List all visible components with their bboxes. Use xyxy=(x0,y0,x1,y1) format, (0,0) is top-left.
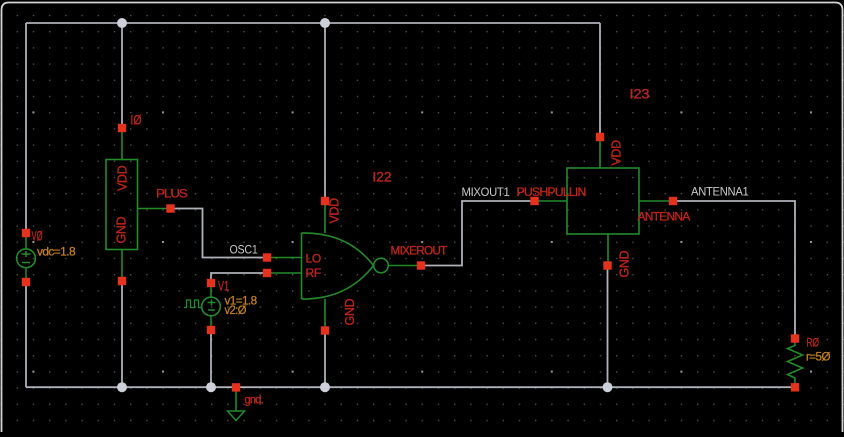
pin label GND of I23 xyxy=(618,251,632,278)
svg-text:PUSHPULLIN: PUSHPULLIN xyxy=(517,185,586,199)
net label PUSHPULLIN xyxy=(517,185,586,199)
wire net ANTENNA1 to R0 xyxy=(676,201,795,336)
pin I0 VDD xyxy=(118,124,126,132)
wire vdd rail down to I23 xyxy=(599,23,601,135)
svg-text:VØ: VØ xyxy=(32,229,43,244)
pin PUSHPULLIN xyxy=(530,197,538,205)
svg-text:VDD: VDD xyxy=(116,165,130,191)
voltage source V1 vpulse xyxy=(184,285,220,329)
block I0 (divider cell) xyxy=(106,130,168,279)
pin LO xyxy=(263,253,271,261)
pin I23 GND xyxy=(603,261,611,269)
value label r=50 xyxy=(806,350,830,364)
wire vdd drop to I22 gate xyxy=(324,23,326,199)
wire ground bottom bus xyxy=(26,386,795,388)
svg-text:v2:Ø: v2:Ø xyxy=(225,303,247,317)
value label vdc=1.8 xyxy=(37,245,76,259)
pin label RF xyxy=(306,266,321,280)
pin gnd tap xyxy=(232,383,240,391)
svg-text:GND: GND xyxy=(115,217,129,244)
svg-text:r=5Ø: r=5Ø xyxy=(806,350,830,364)
wire net PLUS/OSC1 (I0 out to LO) xyxy=(173,209,264,258)
pin ANTENNA out xyxy=(669,197,677,205)
net label MIXEROUT xyxy=(391,244,448,258)
svg-text:V1: V1 xyxy=(218,279,229,294)
pin I0 PLUS out xyxy=(166,204,174,212)
pin I0 GND xyxy=(118,277,126,285)
wire net OSC1 (V1 plus to RF) xyxy=(211,273,264,281)
svg-text:vdc=1.8: vdc=1.8 xyxy=(37,245,76,259)
value label v2=0 xyxy=(225,303,247,317)
junction bus / I0 xyxy=(117,382,127,392)
wire vdd drop to I0 xyxy=(121,23,123,126)
pin label LO xyxy=(306,252,321,266)
svg-text:ANTENNA: ANTENNA xyxy=(638,210,691,224)
instance label V0 xyxy=(32,229,43,244)
instance label I22 xyxy=(373,170,392,185)
pin label GND of I22 xyxy=(343,299,357,326)
svg-text:I23: I23 xyxy=(630,87,650,102)
voltage source V0 vdc xyxy=(17,236,36,280)
resistor R0 xyxy=(788,341,803,385)
pin I22 output xyxy=(417,261,425,269)
wire V1 minus to bus xyxy=(210,332,212,387)
net label PLUS xyxy=(156,187,188,201)
ground symbol gnd xyxy=(228,392,245,421)
instance label I23 xyxy=(630,87,650,102)
wire vdd top rail xyxy=(26,22,600,24)
net label gnd xyxy=(245,395,264,407)
svg-text:GND: GND xyxy=(343,299,357,326)
svg-text:VDD: VDD xyxy=(610,140,624,166)
pin V1 minus xyxy=(207,326,215,334)
pin R0 bottom xyxy=(791,383,799,391)
junction top rail / I22 xyxy=(320,18,330,28)
instance label V1 xyxy=(218,279,229,294)
svg-text:GND: GND xyxy=(618,251,632,278)
block I23 (output driver cell) xyxy=(537,139,671,266)
wire I23 gnd to bus xyxy=(607,268,609,387)
net label OSC1 xyxy=(230,243,259,257)
wire left rail (vdd net down to V0) xyxy=(25,23,27,231)
pin R0 top xyxy=(791,334,799,342)
net label ANTENNA1 xyxy=(691,185,749,199)
wire I0 gnd to bus xyxy=(121,283,123,387)
pin I22 VDD xyxy=(321,197,329,205)
wire I22 gnd to bus xyxy=(324,332,326,387)
svg-text:OSC1: OSC1 xyxy=(230,243,259,257)
pin RF xyxy=(263,269,271,277)
svg-text:MIXEROUT: MIXEROUT xyxy=(391,244,448,258)
svg-text:LO: LO xyxy=(306,252,321,266)
svg-text:ANTENNA1: ANTENNA1 xyxy=(691,185,749,199)
pin V0 minus xyxy=(22,278,30,286)
pin V1 plus xyxy=(207,279,215,287)
svg-text:PLUS: PLUS xyxy=(156,187,188,201)
svg-text:IØ: IØ xyxy=(131,113,142,128)
svg-text:MIXOUT1: MIXOUT1 xyxy=(462,185,511,199)
wire net MIXEROUT to PUSHPULLIN xyxy=(424,201,532,266)
pin label VDD of I22 xyxy=(328,198,342,224)
net label MIXOUT1 xyxy=(462,185,511,199)
svg-text:RØ: RØ xyxy=(807,336,820,350)
instance label I0 xyxy=(131,113,142,128)
svg-text:VDD: VDD xyxy=(328,198,342,224)
pin label ANTENNA xyxy=(638,210,691,224)
svg-text:RF: RF xyxy=(306,266,321,280)
pin I23 VDD xyxy=(596,133,604,141)
pin V0 plus xyxy=(22,229,30,237)
junction bus / V1 xyxy=(206,382,216,392)
pin label VDD of I0 xyxy=(116,165,130,191)
junction top rail / I0 xyxy=(117,18,127,28)
junction bus / I23 xyxy=(603,382,613,392)
instance label R0 xyxy=(807,336,820,350)
value label v1=1.8 xyxy=(225,294,258,308)
junction bus / I22 xyxy=(320,382,330,392)
pin I22 GND xyxy=(321,326,329,334)
svg-text:I22: I22 xyxy=(373,170,392,185)
pin label VDD of I23 xyxy=(610,140,624,166)
pin label GND of I0 xyxy=(115,217,129,244)
wire V0 minus to ground bus xyxy=(25,284,27,387)
svg-text:gnd.: gnd. xyxy=(245,395,264,407)
nor gate I22 xyxy=(271,203,418,330)
